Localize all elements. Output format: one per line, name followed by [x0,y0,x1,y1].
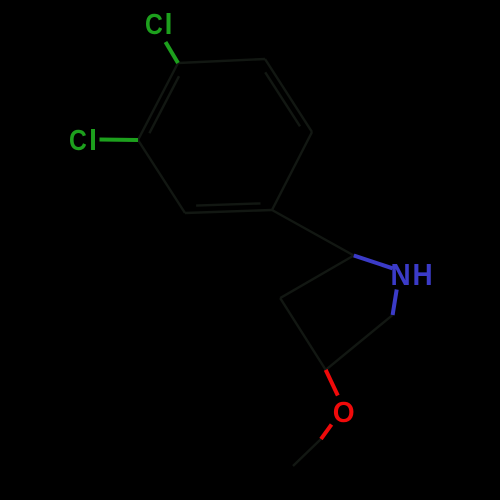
inner double D-E [196,203,260,205]
wire O-CH3 dark half [293,439,321,466]
Cl label 1 [145,8,173,41]
benzene ring C-C bonds [138,59,393,466]
C2-N bond [354,256,393,269]
wire C-D [272,132,312,210]
svg-text:N: N [391,258,411,293]
wire A-B [178,59,265,63]
NH label [391,258,433,293]
svg-text:O: O [333,397,355,429]
wire C2-C3 [280,256,354,299]
inner double F-A [149,76,179,133]
svg-text:C: C [145,8,163,40]
svg-text:l: l [165,9,173,41]
inner double B-C [265,72,300,126]
svg-text:H: H [413,258,433,293]
C4-O bond [326,370,338,396]
wire D-E [185,210,272,213]
wire F-A [138,63,178,140]
svg-text:l: l [89,125,97,157]
Cl1 bond [166,42,179,63]
O-CH3 bond [321,425,332,440]
Cl2 bond [100,138,139,143]
wire B-C [265,59,312,132]
Cl label 2 [69,124,97,157]
wire C4-C5 [326,315,393,370]
wire E-F [138,140,185,213]
wire D-C2 link [272,210,354,256]
svg-text:C: C [69,124,87,156]
wire C3-C4 [280,298,326,370]
N-C5 bond [393,290,397,316]
